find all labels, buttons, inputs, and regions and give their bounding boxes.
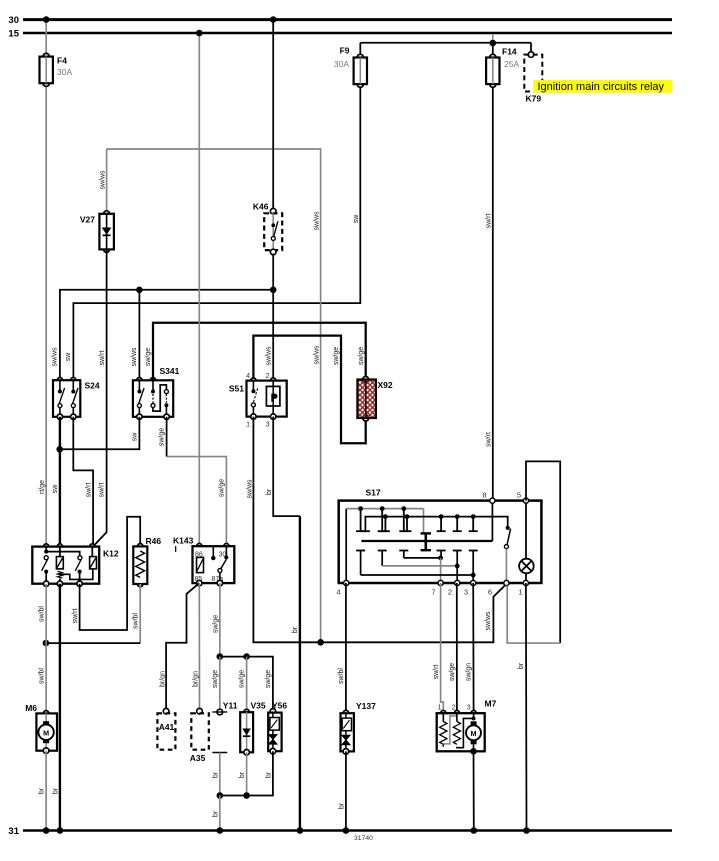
- svg-text:F9: F9: [340, 46, 350, 56]
- svg-text:sw/ws: sw/ws: [51, 347, 58, 367]
- valve Y137: [341, 701, 377, 754]
- wire S51 pin4 to X92 bottom (sw/ge): [253, 336, 365, 444]
- wire node y643 M6 horizontal: [43, 640, 141, 647]
- diode V35: [240, 701, 266, 756]
- wire R46 bottom to M6 node (sw/bl): [139, 584, 141, 643]
- wire node sw/ws loop y149 + right drop: [107, 149, 321, 642]
- relay K143: [173, 536, 234, 586]
- label sw/ws on x320 drop upper: [313, 211, 320, 231]
- svg-text:sw/ws: sw/ws: [265, 346, 272, 366]
- wire Y11 to br node: [219, 753, 221, 796]
- svg-text:br: br: [52, 787, 59, 794]
- label sw/bl lower: [38, 668, 45, 684]
- svg-text:sw/ws: sw/ws: [485, 611, 492, 631]
- wire node to V35 (sw/ge): [246, 657, 248, 713]
- wire Y56 to br node: [217, 751, 273, 799]
- svg-text:sw/rt: sw/rt: [99, 351, 106, 366]
- svg-text:br: br: [292, 626, 299, 633]
- svg-text:sw: sw: [52, 484, 59, 494]
- S17 internal rail A (pin4 comb): [346, 506, 423, 583]
- label sw/rt on S24-K12 wire: [85, 483, 92, 498]
- wire S51 pin1 to S17 pin6 (sw/ws): [253, 417, 506, 646]
- svg-text:4: 4: [246, 373, 250, 380]
- svg-text:sw/rt: sw/rt: [486, 214, 493, 229]
- label sw/ws at S341 pin1: [131, 347, 138, 367]
- S17 internal switch to pin6: [504, 526, 510, 583]
- wire S17 pin2 to M7 pin2 (sw/ge): [456, 583, 458, 713]
- label sw/rt lower: [486, 432, 493, 447]
- wire S341 to X92 top (sw/ge): [153, 323, 366, 381]
- wire K143 pin87a to sw/ge node: [219, 583, 221, 657]
- svg-text:sw/ge: sw/ge: [219, 479, 226, 497]
- wire F9 feed stub: [359, 43, 361, 58]
- label sw/ge at Y56: [265, 670, 272, 688]
- svg-text:sw/ge: sw/ge: [213, 615, 220, 633]
- svg-text:I: I: [175, 544, 177, 554]
- wire F14 to S17 pin8 (sw/rt): [492, 84, 494, 501]
- svg-text:sw/ws: sw/ws: [247, 479, 254, 499]
- power bus 15: [8, 29, 672, 40]
- fuse F9: [334, 46, 367, 88]
- wire S17 pin7 to M7 pin1 (sw/rt): [441, 583, 444, 713]
- label rt/ge: [39, 480, 46, 494]
- svg-text:sw: sw: [65, 352, 72, 362]
- wire K12 pin1 to M6 (sw/bl): [45, 584, 47, 714]
- label sw/ge at M7 pin2: [449, 663, 456, 681]
- svg-text:sw/rt: sw/rt: [85, 483, 92, 498]
- relay contact K46: [253, 202, 282, 255]
- svg-text:sw/rt: sw/rt: [433, 665, 440, 680]
- label sw/ge at Y11: [212, 670, 219, 688]
- svg-text:M: M: [471, 729, 477, 738]
- label sw at S341 pin1 bottom: [132, 432, 139, 442]
- wire br node to bus31: [217, 796, 224, 834]
- svg-text:A35: A35: [190, 753, 206, 763]
- label sw/ws on x320 drop lower: [313, 345, 320, 365]
- label br at K12 pin2 bottom: [52, 787, 59, 794]
- label br at M6 bottom: [39, 787, 46, 794]
- svg-text:31740: 31740: [354, 835, 373, 842]
- label br/gn at A41: [159, 671, 166, 687]
- wire M7 to bus31: [471, 751, 478, 834]
- svg-text:Ignition main circuits relay: Ignition main circuits relay: [538, 81, 665, 93]
- label sw/ws on K46-S51 wire: [265, 346, 272, 366]
- svg-text:sw/ws: sw/ws: [313, 345, 320, 365]
- wire bus15 to K143 pin86: [196, 30, 203, 547]
- S17 internal rail B (pin8 comb): [361, 514, 508, 531]
- wire K46 to S51 pin2 (sw/ws): [272, 254, 274, 381]
- svg-text:S24: S24: [85, 381, 100, 391]
- svg-text:K46: K46: [253, 202, 269, 212]
- label br at final drop: [212, 810, 219, 817]
- label sw/rt at K12 pin3 bottom: [72, 609, 79, 624]
- svg-text:br: br: [266, 488, 273, 495]
- svg-text:sw/ge: sw/ge: [212, 670, 219, 688]
- svg-text:3: 3: [467, 705, 471, 712]
- motor M6 (blower): [25, 703, 57, 754]
- wire S17 pin3 to M7 pin3 (sw/gn): [472, 583, 474, 713]
- wire S341 pin1 to S24 junction y449: [60, 417, 139, 450]
- label sw/rt on V27 wire low: [99, 483, 106, 498]
- svg-text:2: 2: [448, 588, 452, 597]
- S17 internal feed pin8 to contact bar: [491, 501, 493, 541]
- svg-text:2: 2: [266, 373, 270, 380]
- svg-text:1: 1: [438, 705, 442, 712]
- svg-text:M7: M7: [485, 699, 497, 709]
- fuse F14: [486, 43, 519, 87]
- label sw/ge at S341 pin2: [145, 348, 152, 366]
- label sw/ws above V27: [99, 170, 106, 190]
- svg-text:sw/bl: sw/bl: [38, 668, 45, 684]
- label sw/rt on V27 wire mid: [99, 351, 106, 366]
- svg-text:3: 3: [464, 588, 468, 597]
- label br at Y11 bottom: [212, 771, 219, 778]
- svg-text:sw/rt: sw/rt: [99, 483, 106, 498]
- svg-text:sw/ge: sw/ge: [358, 347, 365, 365]
- S17 pin bumps: [344, 498, 529, 586]
- svg-text:sw/ge: sw/ge: [333, 347, 340, 365]
- switch S51: [229, 373, 287, 429]
- svg-text:br: br: [212, 771, 219, 778]
- svg-text:1: 1: [246, 422, 250, 429]
- label sw/bl at S17 pin4: [338, 668, 345, 684]
- label sw/ws at S24 pin1: [51, 347, 58, 367]
- svg-text:br: br: [212, 810, 219, 817]
- label br/gn at A35: [192, 671, 199, 687]
- power bus 30: [8, 15, 672, 26]
- svg-text:30: 30: [8, 15, 19, 26]
- wire node y290 (S24 pin1 / S341 pin1 / K46): [60, 287, 277, 381]
- label sw/ge at V35: [239, 670, 246, 688]
- svg-text:S341: S341: [160, 366, 180, 376]
- svg-text:V27: V27: [80, 215, 95, 225]
- wire V27 top stub: [106, 149, 108, 214]
- svg-text:br/gn: br/gn: [192, 671, 199, 687]
- svg-text:7: 7: [431, 588, 435, 597]
- wire K143 pin85 to A35 (br/gn): [198, 583, 200, 711]
- svg-text:30A: 30A: [57, 67, 72, 77]
- control unit A41: [157, 708, 175, 749]
- connector X92: [357, 377, 392, 422]
- svg-text:S51: S51: [229, 384, 244, 394]
- svg-text:sw: sw: [132, 432, 139, 442]
- switch S341: [133, 366, 180, 419]
- svg-text:Y56: Y56: [272, 701, 287, 711]
- svg-text:K79: K79: [526, 94, 542, 104]
- label sw/ws at S17 pin6 branch: [485, 611, 492, 631]
- wire node sw/ge rail to Y56: [217, 653, 273, 711]
- label sw/rt at M7 pin1: [433, 665, 440, 680]
- label br at V35 bottom: [239, 771, 246, 778]
- wire S341 pin3 to K143 pin30 (sw/ge): [167, 417, 227, 546]
- svg-text:sw/bl: sw/bl: [38, 606, 45, 622]
- switch S24: [53, 378, 100, 420]
- label sw/ge at K143 pin87a: [213, 615, 220, 633]
- label sw on F9 wire: [353, 214, 360, 224]
- wire S17 pin4 to Y137 (sw/bl): [345, 583, 347, 713]
- motor M7 (heater blower) with resistors: [437, 699, 497, 755]
- svg-text:S17: S17: [366, 488, 381, 498]
- label sw/ge at X92 top: [358, 347, 365, 365]
- wire bus30 to K46: [270, 16, 277, 211]
- svg-text:sw/rt: sw/rt: [72, 609, 79, 624]
- label sw/ge on x341 wire: [333, 347, 340, 365]
- svg-text:8: 8: [482, 491, 486, 500]
- ignition switch S17 box: [339, 488, 542, 584]
- label sw/ge at K143 pin30: [219, 479, 226, 497]
- svg-text:sw/ge: sw/ge: [449, 663, 456, 681]
- label sw/ge at S341 pin3: [159, 428, 166, 446]
- svg-text:sw/bl: sw/bl: [338, 668, 345, 684]
- svg-text:F4: F4: [57, 56, 67, 66]
- wire S17 pin1 to bus31 (br): [523, 583, 530, 834]
- S17 internal lamp: [519, 501, 534, 583]
- wire Y137 to bus31 (br): [343, 751, 350, 833]
- svg-text:4: 4: [336, 588, 340, 597]
- relay K12: [32, 544, 119, 587]
- wire S341 pin1 top feed: [138, 290, 140, 381]
- svg-text:br: br: [239, 771, 246, 778]
- wire fuse-row connector (F9/F14/K79): [360, 34, 531, 46]
- svg-text:M: M: [43, 728, 49, 737]
- svg-text:rt/ge: rt/ge: [39, 480, 46, 494]
- S17 internal bottom comb rails: [356, 551, 478, 584]
- label sw/rt upper: [486, 214, 493, 229]
- svg-text:sw/ge: sw/ge: [145, 348, 152, 366]
- label sw/bl at R46 bottom: [132, 613, 139, 629]
- wire bus30 to F4 (rt): [43, 16, 50, 56]
- highlight label: Ignition main circuits relay: [533, 80, 672, 93]
- svg-text:sw/ge: sw/ge: [159, 428, 166, 446]
- svg-text:K12: K12: [103, 549, 119, 559]
- S17 internal contact bar: [361, 540, 492, 542]
- wire S24 pin2 to K12 pin3 (sw/rt): [73, 417, 93, 547]
- svg-text:sw/ge: sw/ge: [265, 670, 272, 688]
- ground bus 31: [8, 826, 672, 837]
- S17 pin labels top: [482, 491, 521, 500]
- valve Y11 (terminal): [212, 701, 237, 753]
- svg-text:6: 6: [488, 588, 492, 597]
- wire S17 pin5 loop to pin6: [507, 461, 560, 643]
- svg-text:Y137: Y137: [356, 701, 376, 711]
- S17 pin labels bottom: [336, 588, 522, 597]
- svg-text:br: br: [265, 771, 272, 778]
- svg-text:3: 3: [266, 422, 270, 429]
- svg-text:br: br: [39, 787, 46, 794]
- wire K12 pin2 to bus31 (br): [57, 584, 64, 834]
- svg-text:15: 15: [8, 29, 19, 40]
- diagram number 31740: [354, 835, 373, 842]
- label sw on S24-K12 wire: [52, 484, 59, 494]
- wire F4 to K12 pin1 (rt/ge): [45, 84, 47, 547]
- svg-text:br: br: [338, 802, 345, 809]
- svg-text:30A: 30A: [334, 59, 349, 69]
- svg-text:F14: F14: [502, 47, 517, 57]
- control unit A35: [190, 708, 209, 763]
- wire V27 to K12 pin3 (sw/rt): [93, 249, 107, 546]
- svg-text:sw/ws: sw/ws: [131, 347, 138, 367]
- fuse F4: [40, 53, 73, 86]
- svg-text:sw/ws: sw/ws: [313, 211, 320, 231]
- svg-text:1: 1: [518, 588, 522, 597]
- svg-text:31: 31: [8, 826, 19, 837]
- label br at Y56 bottom: [265, 771, 272, 778]
- relay K79 (ignition main circuits relay): [524, 43, 542, 104]
- svg-text:25A: 25A: [504, 59, 519, 69]
- wire M6 to bus31 (br): [43, 751, 50, 834]
- svg-text:M6: M6: [25, 703, 37, 713]
- wire F9 to junction y303 to S24 pin sw: [73, 84, 360, 380]
- label sw at S24 pin2: [65, 352, 72, 362]
- svg-text:sw/ws: sw/ws: [99, 170, 106, 190]
- wire S51 pin3 to bus31 (br): [273, 417, 303, 834]
- svg-text:br: br: [518, 662, 525, 669]
- resistor R46: [133, 536, 161, 587]
- valve Y56: [268, 701, 287, 755]
- svg-text:br/gn: br/gn: [159, 671, 166, 687]
- svg-text:sw/gn: sw/gn: [466, 663, 473, 681]
- svg-text:sw: sw: [353, 214, 360, 224]
- label br at S51 pin3: [266, 488, 273, 495]
- wire V35 to br node: [246, 752, 248, 795]
- svg-text:sw/rt: sw/rt: [486, 432, 493, 447]
- label sw/bl upper: [38, 606, 45, 622]
- svg-text:sw/bl: sw/bl: [132, 613, 139, 629]
- svg-text:R46: R46: [146, 536, 162, 546]
- label br on x300 wire: [292, 626, 299, 633]
- svg-text:5: 5: [517, 491, 521, 500]
- label br at S17 pin1: [518, 662, 525, 669]
- wire node to Y11 (sw/ge): [219, 657, 221, 712]
- wire K12 pin3 to R46 top (sw/rt): [80, 517, 141, 630]
- wire S24 pin1 to K12 pin2 (sw): [56, 417, 63, 547]
- svg-text:Y11: Y11: [223, 701, 238, 711]
- diode V27: [80, 211, 114, 253]
- S17 internal slider (moving contact): [421, 533, 431, 550]
- wire K143 pin85 to A41 (br/gn): [166, 583, 199, 711]
- svg-text:2: 2: [452, 705, 456, 712]
- svg-text:A41: A41: [159, 722, 175, 732]
- label br at Y137 bottom: [338, 802, 345, 809]
- label sw/ws at S51 pin1: [247, 479, 254, 499]
- svg-text:X92: X92: [378, 380, 393, 390]
- svg-text:sw/ge: sw/ge: [239, 670, 246, 688]
- label sw/gn at M7 pin3: [466, 663, 473, 681]
- svg-text:V35: V35: [251, 701, 266, 711]
